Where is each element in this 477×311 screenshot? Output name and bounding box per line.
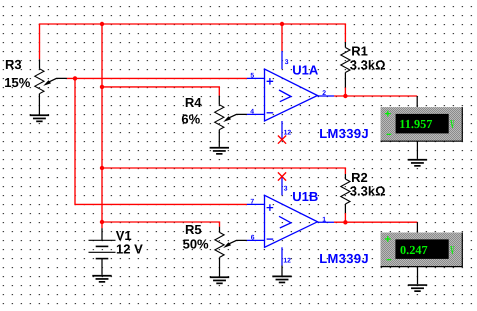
wire R3 wiper to U1A pin5 (67, 77, 247, 79)
svg-text:6: 6 (251, 235, 255, 242)
U1B pin1 output stub (318, 221, 335, 223)
wire U1A output to R1 and voltmeter XMM1 (334, 88, 417, 97)
svg-text:R3: R3 (5, 57, 22, 72)
U1B pin3 stub (281, 177, 283, 196)
ground below R5 (210, 277, 229, 283)
potentiometer R4 wiper arrow to U1A pin4 (223, 114, 247, 122)
op-amp comparator U1B (265, 195, 318, 247)
svg-text:3: 3 (285, 59, 289, 66)
U1B pin6 stub (247, 239, 265, 241)
voltmeter XMM2 lead from output wire (416, 222, 418, 232)
ground below voltmeter XMM2 (408, 285, 427, 291)
svg-text:R5: R5 (185, 222, 202, 237)
junction rail / R2 branch (100, 166, 104, 170)
svg-text:U1B: U1B (292, 189, 318, 204)
svg-text:3.3kΩ: 3.3kΩ (350, 57, 386, 72)
svg-text:LM339J: LM339J (319, 126, 369, 141)
svg-text:12 V: 12 V (116, 242, 143, 257)
resistor R2 body (341, 174, 350, 213)
svg-text:V1: V1 (116, 228, 132, 243)
wire V+ rail vertical from top rail down to V1 (101, 24, 103, 228)
U1B pin7 stub (247, 203, 265, 205)
potentiometer R5 body (215, 227, 224, 277)
svg-text:6%: 6% (181, 111, 200, 126)
svg-text:12: 12 (284, 130, 292, 137)
no-connect X on U1A pin12 (278, 136, 286, 144)
svg-text:R1: R1 (351, 44, 368, 59)
potentiometer R3 wiper arrow (43, 78, 67, 86)
voltmeter XMM2 plus mark (385, 236, 391, 242)
svg-text:LM339J: LM339J (319, 251, 369, 266)
wire U1B output to R2 and voltmeter XMM2 (334, 213, 417, 222)
no-connect X on U1B pin3 (278, 172, 286, 180)
voltmeter XMM1 ground lead (416, 141, 418, 159)
junction top rail / U1A pin3 (280, 22, 284, 26)
junction U1B output / R2 (343, 220, 347, 224)
svg-text:2: 2 (322, 90, 326, 97)
ground below voltmeter XMM1 (408, 160, 427, 166)
voltmeter XMM1 minus mark (387, 133, 392, 135)
voltmeter XMM2 ground lead (417, 267, 419, 285)
svg-text:0.247: 0.247 (400, 243, 428, 257)
U1A pin4 stub (247, 113, 265, 115)
U1B pin12 stub (281, 247, 283, 265)
svg-text:15%: 15% (4, 75, 30, 90)
svg-text:11.957: 11.957 (399, 117, 432, 131)
junction top rail / V+ vertical (100, 22, 104, 26)
wire rail to R5 top (102, 222, 220, 227)
junction rail / R5 branch (100, 220, 104, 224)
svg-text:V: V (450, 243, 455, 257)
voltmeter XMM1 lead from output wire (416, 96, 418, 107)
ground below R4 (210, 148, 229, 154)
svg-text:U1A: U1A (292, 63, 319, 78)
wire rail to R2 top (102, 168, 345, 174)
svg-text:3: 3 (284, 185, 288, 192)
potentiometer R5 wiper arrow to U1B pin6 (223, 240, 247, 248)
wire R3 wiper down to U1B pin7 (75, 78, 247, 204)
U1A pin3 stub (281, 51, 283, 69)
voltmeter XMM2 body (381, 233, 463, 267)
voltmeter XMM1 body (381, 107, 463, 141)
ground below R3 (30, 115, 49, 121)
ground below U1B pin12 (272, 276, 291, 282)
junction R3 wiper node (73, 76, 77, 80)
junction rail / R4 branch (100, 85, 104, 89)
U1A pin2 output stub (318, 95, 335, 97)
svg-text:1: 1 (322, 216, 326, 223)
wire rail to R4 top (102, 87, 219, 96)
svg-text:7: 7 (250, 199, 254, 206)
svg-text:12: 12 (283, 257, 291, 264)
voltmeter XMM1 plus mark (385, 111, 391, 117)
U1A pin5 stub (247, 77, 265, 79)
voltmeter XMM2 minus mark (387, 259, 392, 261)
svg-text:V: V (450, 117, 455, 131)
op-amp comparator U1A (265, 69, 318, 121)
svg-text:3.3kΩ: 3.3kΩ (350, 184, 386, 199)
svg-text:4: 4 (250, 109, 254, 116)
ground below V1 (92, 276, 111, 282)
wire top V+ rail from R3 top to R1 top (40, 24, 346, 59)
battery V1 (89, 228, 116, 275)
svg-text:5: 5 (250, 73, 254, 80)
U1A pin12 stub (281, 121, 283, 140)
resistor R1 body (341, 42, 350, 88)
potentiometer R4 body (215, 96, 224, 147)
U1B pin12 lead to ground (281, 266, 283, 276)
potentiometer R3 body (35, 59, 44, 114)
svg-text:50%: 50% (183, 237, 209, 252)
wire U1A pin3 to top rail (281, 24, 283, 51)
junction U1A output / R1 (343, 94, 347, 98)
svg-text:R4: R4 (185, 95, 202, 110)
